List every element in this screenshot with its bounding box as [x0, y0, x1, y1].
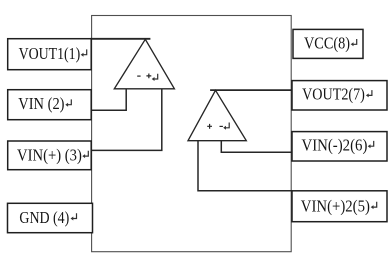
pin box VIN (2) pin 2: [8, 90, 92, 120]
IC body U1: [92, 16, 292, 252]
svg-text:VOUT1(1): VOUT1(1): [19, 44, 81, 63]
wire A2 inverting input to pin6 VIN(-)2: [221, 141, 292, 153]
op-amp A1 label return mark: [152, 74, 158, 81]
svg-text:VIN(+)2(5): VIN(+)2(5): [301, 196, 370, 215]
wire pin2 VIN to A1 inverting input: [91, 89, 126, 110]
op-amp A2 non-inverting input label +: [207, 124, 212, 129]
svg-text:VCC(8): VCC(8): [304, 34, 350, 53]
op-amp A2: [188, 90, 246, 140]
pin box VIN(+)2(5) pin 5: [292, 191, 387, 222]
svg-text:GND (4): GND (4): [19, 208, 69, 227]
wire pin1 VOUT1 to op-amp A1 output: [91, 38, 151, 40]
op-amp A2 label return mark: [223, 123, 229, 130]
pin box VCC(8) pin 8: [293, 29, 363, 58]
svg-text:VIN(+) (3): VIN(+) (3): [17, 145, 82, 164]
pin box VIN(-)2(6) pin 6: [292, 132, 387, 161]
wire A2 non-inverting input to pin5 VIN(+)2: [198, 141, 292, 191]
pin box VOUT1(1) pin 1: [8, 39, 92, 70]
op-amp A1 non-inverting input label +: [146, 74, 151, 79]
wire pin3 VIN(+) to A1 non-inverting input: [91, 89, 162, 151]
svg-text:VIN(-)2(6): VIN(-)2(6): [302, 136, 368, 155]
pin box VOUT2(7) pin 7: [292, 81, 387, 110]
svg-text:VOUT2(7): VOUT2(7): [302, 85, 365, 104]
op-amp A1 inverting input label -: [137, 75, 140, 77]
wire op-amp A2 output to pin7 VOUT2: [210, 89, 292, 91]
pin box GND (4) pin 4: [8, 203, 93, 232]
pin box VIN(+) (3) pin 3: [8, 141, 92, 170]
op-amp A2 inverting input label -: [220, 125, 223, 127]
op-amp A1: [114, 39, 174, 89]
svg-text:VIN (2): VIN (2): [18, 94, 64, 113]
